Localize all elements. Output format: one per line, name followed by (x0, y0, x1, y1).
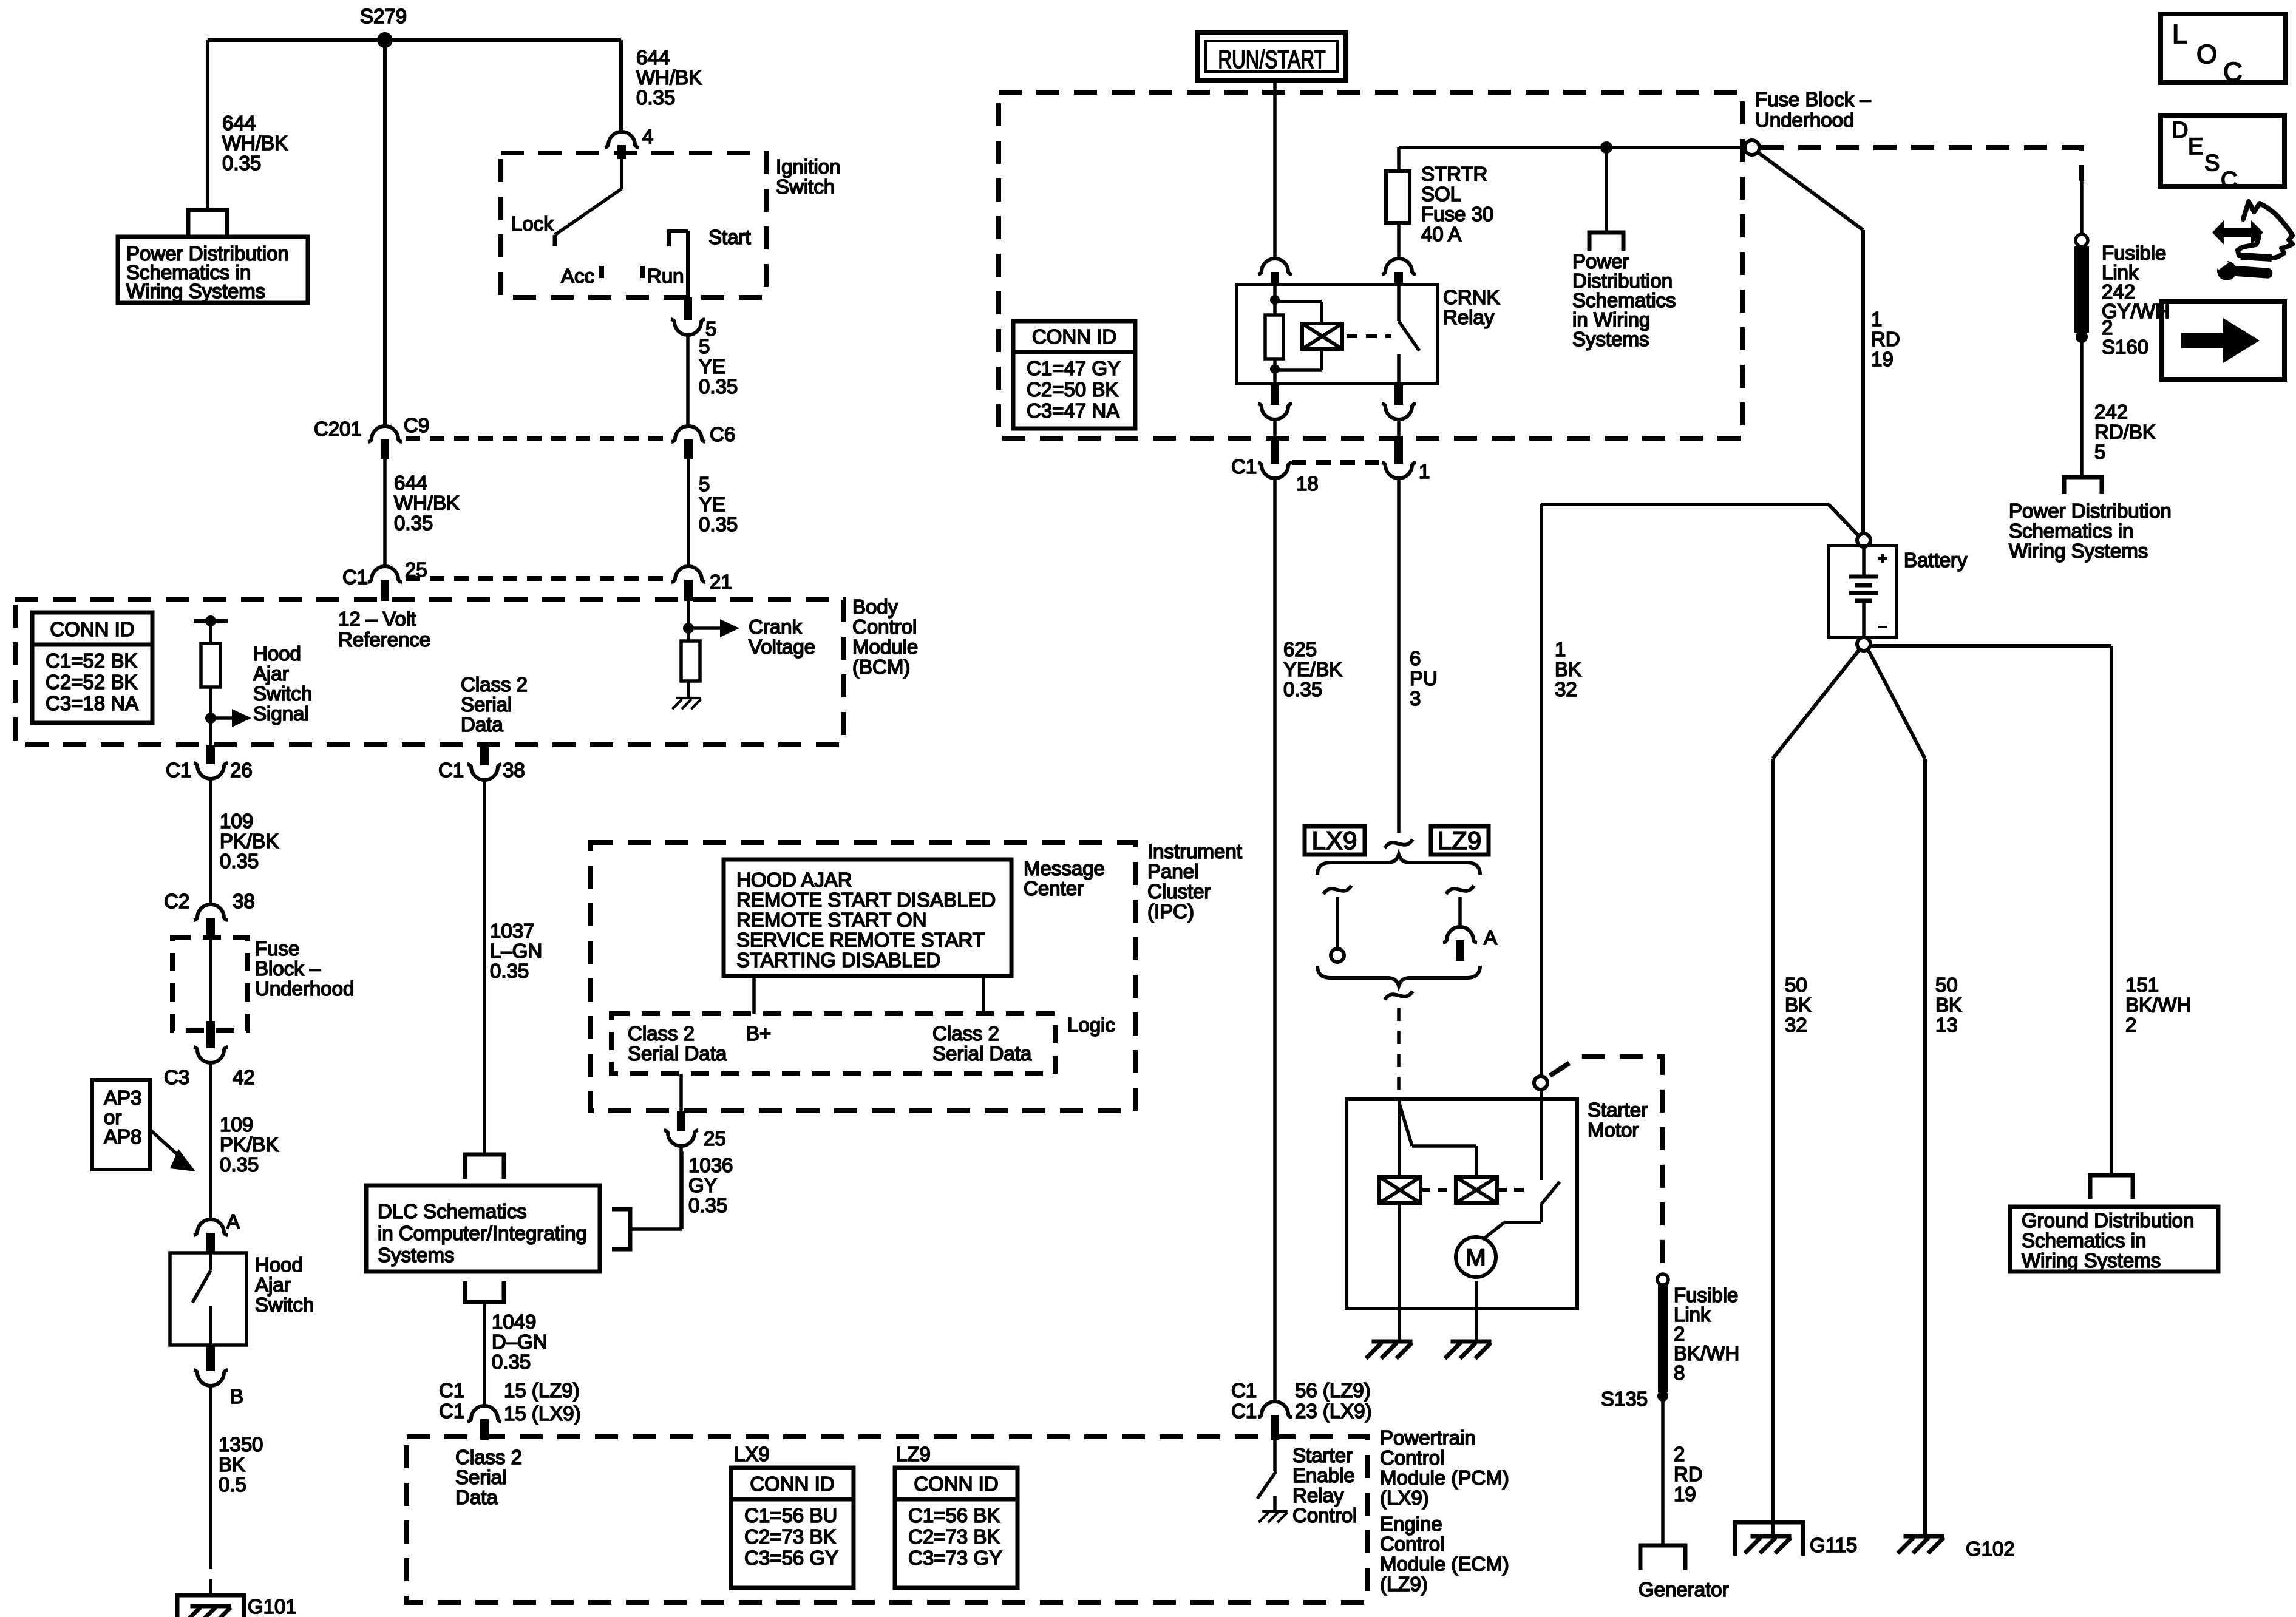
label 1 (relay) (1419, 460, 1430, 483)
contact tick Run (640, 266, 645, 278)
svg-text:C1: C1 (1231, 455, 1257, 478)
icon LOC box (2161, 14, 2286, 87)
split brace bottom (1317, 966, 1480, 986)
svg-text:25: 25 (704, 1127, 726, 1150)
svg-text:WH/BK: WH/BK (394, 492, 460, 514)
icon arrow box (2162, 302, 2284, 379)
svg-text:C: C (2221, 168, 2237, 193)
label Ignition Switch (776, 155, 840, 198)
label 25 (IPC) (704, 1127, 726, 1150)
svg-text:5: 5 (699, 335, 710, 358)
label C3 (164, 1066, 189, 1088)
svg-text:38: 38 (233, 890, 255, 912)
svg-text:Starter: Starter (1588, 1099, 1648, 1121)
svg-text:LX9: LX9 (734, 1443, 770, 1465)
svg-text:Control: Control (852, 615, 917, 638)
DLC top bracket (465, 1154, 504, 1179)
svg-text:Switch: Switch (776, 175, 835, 198)
svg-text:Systems: Systems (378, 1244, 455, 1266)
svg-text:PU: PU (1410, 667, 1438, 690)
wire relay right pin to 1 (1397, 419, 1401, 439)
svg-text:Engine: Engine (1380, 1513, 1442, 1535)
svg-text:LX9: LX9 (1312, 826, 1357, 855)
svg-text:13: 13 (1935, 1014, 1958, 1036)
wire ignition switch pin 4 internal (620, 159, 623, 189)
fusible link S160 body (2074, 246, 2089, 333)
svg-text:(IPC): (IPC) (1147, 900, 1194, 923)
svg-text:C1: C1 (1231, 1379, 1257, 1402)
label LX9 (1312, 826, 1357, 855)
svg-text:0.35: 0.35 (492, 1351, 531, 1373)
label circuit 50 BK 13 (1935, 974, 1962, 1036)
label pin 4 (642, 125, 653, 147)
svg-text:Instrument: Instrument (1147, 840, 1242, 863)
label circuit 1037 L-GN 0.35 (490, 920, 542, 982)
icon adjust double arrow (2212, 220, 2263, 245)
CRNK left top stub (1271, 272, 1279, 286)
connector pin A cap (194, 1219, 228, 1235)
branch LX9 wire (1336, 897, 1339, 949)
svg-text:Battery: Battery (1904, 549, 1968, 571)
starter enable switch wire (1273, 1440, 1277, 1471)
label B+ (746, 1022, 771, 1045)
message center box (724, 859, 1011, 976)
crank voltage arrow (688, 619, 739, 637)
label C1 C1 (PCM) (1231, 1379, 1257, 1422)
svg-text:1049: 1049 (492, 1310, 536, 1333)
svg-text:Serial Data: Serial Data (932, 1042, 1032, 1065)
hood switch contact lower (209, 1306, 212, 1345)
splice S135 (1657, 1391, 1668, 1402)
wire left leg from S279 down (206, 40, 209, 211)
C3-42 stub (206, 1021, 215, 1048)
starter coil1 feed (1398, 1099, 1401, 1177)
svg-text:Power Distribution: Power Distribution (2009, 500, 2172, 522)
svg-text:1: 1 (1555, 638, 1566, 660)
PCM dashed box (407, 1437, 1367, 1602)
wire battery negative to right (1870, 644, 2111, 648)
label C201 (314, 418, 362, 440)
fusible link 2 top circle (1657, 1274, 1668, 1285)
wire RUN/START to CRNK relay (1273, 80, 1277, 260)
svg-text:SOL: SOL (1421, 183, 1461, 205)
svg-text:STARTING DISABLED: STARTING DISABLED (736, 949, 940, 971)
svg-text:D–GN: D–GN (492, 1331, 548, 1353)
label circuit 1049 D-GN 0.35 (492, 1310, 548, 1373)
svg-text:0.35: 0.35 (220, 1153, 259, 1176)
wire coil1 to ground (1398, 1203, 1401, 1340)
CRNK CONN ID table (1013, 321, 1135, 429)
svg-text:Wiring Systems: Wiring Systems (2009, 540, 2148, 562)
svg-text:C2=50 BK: C2=50 BK (1027, 378, 1118, 401)
connector pin 5 cup (671, 319, 705, 335)
connector A cap (LZ9) (1443, 927, 1477, 943)
engine option break tilde (1385, 839, 1413, 848)
svg-text:CRNK: CRNK (1443, 286, 1500, 308)
svg-text:40 A: 40 A (1421, 223, 1461, 245)
label Lock (511, 212, 554, 235)
wire C6 to pin 21 (687, 459, 690, 567)
wire relay left pin to C1-18 (1273, 419, 1277, 439)
CRNK bottom left stub (1271, 384, 1279, 405)
svg-text:Class 2: Class 2 (628, 1022, 695, 1045)
label circuit 50 BK 32 (1785, 974, 1812, 1036)
svg-text:Serial: Serial (461, 693, 512, 716)
ignition switch dashed box (501, 153, 766, 297)
svg-text:AP8: AP8 (104, 1125, 141, 1148)
label 26 (230, 759, 253, 781)
branch LX9 tilde (1323, 886, 1351, 894)
svg-text:1037: 1037 (490, 920, 534, 942)
svg-text:HOOD AJAR: HOOD AJAR (736, 869, 852, 891)
svg-text:3: 3 (1410, 687, 1421, 710)
battery plates (1849, 547, 1878, 637)
svg-text:38: 38 (503, 759, 525, 781)
svg-text:RD: RD (1674, 1463, 1703, 1485)
svg-text:109: 109 (220, 1113, 253, 1136)
relay node bottom (1270, 364, 1280, 374)
label Body Control Module BCM (852, 595, 918, 678)
relay resistor (1265, 315, 1283, 359)
svg-text:RD: RD (1871, 328, 1900, 350)
svg-text:Relay: Relay (1292, 1484, 1344, 1507)
C6 stub (684, 439, 693, 459)
svg-text:Ajar: Ajar (255, 1273, 291, 1296)
wire resistor to signal node (209, 687, 212, 745)
wire 1350 BK (209, 1386, 212, 1569)
connector pin 21 cap (671, 566, 705, 582)
relay link top (1275, 302, 1322, 324)
svg-text:Switch: Switch (255, 1293, 314, 1316)
svg-text:C3=47 NA: C3=47 NA (1027, 399, 1119, 422)
label Fusible Link 242 GY/WH 2 (2102, 242, 2170, 339)
icon DESC box (2161, 115, 2284, 193)
hood switch contact upper (209, 1254, 212, 1270)
generator bracket (1640, 1545, 1685, 1570)
wire logic to pin 25 (679, 1074, 683, 1111)
wire C201 to C1-25 (383, 459, 387, 567)
RUN/START box (1197, 33, 1346, 80)
label Fuse Block - Underhood (top) (1755, 88, 1871, 131)
starter motor dashed outline (1550, 1057, 1662, 1270)
svg-text:32: 32 (1785, 1014, 1807, 1036)
svg-text:Data: Data (461, 713, 503, 736)
battery negative circle (1857, 637, 1870, 651)
ground G101 bracket (177, 1595, 244, 1617)
svg-text:S160: S160 (2102, 336, 2148, 358)
svg-text:YE: YE (699, 355, 725, 378)
svg-text:0.35: 0.35 (394, 512, 433, 534)
svg-text:Class 2: Class 2 (461, 673, 528, 696)
svg-text:C2=73 BK: C2=73 BK (744, 1525, 836, 1548)
label pin 5 (705, 317, 716, 340)
relay coil symbol (1302, 324, 1342, 349)
svg-text:C3=73 GY: C3=73 GY (908, 1547, 1002, 1569)
connector C2 pin 38 cap (194, 904, 228, 920)
relay switch lever (1399, 321, 1419, 351)
solenoid switch lever (1541, 1182, 1560, 1204)
ground distribution bracket (2090, 1175, 2133, 1199)
svg-text:BK: BK (1935, 994, 1962, 1016)
BCM dashed box (15, 600, 844, 745)
svg-text:Module: Module (852, 636, 918, 658)
svg-text:C1: C1 (342, 566, 368, 588)
wire S160 down (2080, 342, 2084, 477)
wire 625 YE/BK long (1273, 478, 1277, 1403)
svg-text:(LZ9): (LZ9) (1380, 1573, 1428, 1595)
relay coil left wire (1273, 286, 1277, 315)
svg-text:Serial: Serial (455, 1466, 506, 1488)
starter solenoid plunger wire (1399, 1103, 1476, 1177)
svg-text:Enable: Enable (1292, 1464, 1355, 1486)
wire motor to ground (1475, 1281, 1478, 1340)
svg-text:C: C (2223, 57, 2243, 87)
pin 5 stub (684, 297, 692, 320)
label 15 (LZ9) (504, 1379, 580, 1402)
label AP3 or AP8 (104, 1086, 141, 1148)
svg-text:C201: C201 (314, 418, 362, 440)
svg-text:Run: Run (647, 265, 684, 287)
svg-text:109: 109 (220, 810, 253, 832)
svg-text:YE/BK: YE/BK (1283, 658, 1342, 680)
label Class 2 Serial Data (BCM) (461, 673, 528, 736)
label Class 2 Serial Data (logic right) (932, 1022, 1032, 1065)
icon adjust wrench (2215, 257, 2273, 280)
label circuit 242 RD/BK 5 (2094, 401, 2156, 463)
svg-text:WH/BK: WH/BK (222, 132, 288, 154)
svg-text:RD/BK: RD/BK (2094, 421, 2156, 443)
svg-text:Wiring Systems: Wiring Systems (126, 280, 265, 302)
svg-text:CONN ID: CONN ID (914, 1473, 998, 1495)
connector C1 pin 38 cup (467, 764, 501, 780)
wire S279 horizontal bus (208, 38, 621, 42)
label circuit 5 YE 0.35 (upper) (699, 335, 738, 398)
label 12 - Volt Reference (338, 608, 430, 651)
svg-text:Acc: Acc (561, 265, 594, 287)
label Ground Distribution Schematics in Wiring Systems (2022, 1209, 2194, 1272)
svg-text:23 (LX9): 23 (LX9) (1295, 1400, 1372, 1422)
svg-text:Panel: Panel (1147, 860, 1198, 883)
svg-text:Fuse: Fuse (255, 937, 299, 960)
svg-text:625: 625 (1283, 638, 1317, 660)
svg-text:Lock: Lock (511, 212, 554, 235)
relay switch wire bottom (1397, 354, 1401, 384)
svg-text:6: 6 (1410, 647, 1421, 670)
coil2 to switch dashes (1497, 1188, 1525, 1192)
label circuit 625 YE/BK 0.35 (1283, 638, 1342, 700)
wire right ground drop (2110, 646, 2113, 1175)
svg-text:L–GN: L–GN (490, 940, 542, 962)
svg-text:8: 8 (1674, 1361, 1685, 1384)
label circuit 1 RD 19 (1871, 308, 1900, 370)
svg-text:CONN ID: CONN ID (750, 1473, 834, 1495)
label Message Center (1024, 857, 1105, 900)
label circuit 109 PK/BK 0.35 (upper) (220, 810, 279, 872)
svg-text:C1: C1 (438, 759, 464, 781)
svg-text:0.35: 0.35 (222, 152, 261, 174)
label Acc (561, 265, 594, 287)
svg-text:C1: C1 (439, 1400, 464, 1422)
dashed wire to starter motor (1397, 1008, 1401, 1099)
wire 1049 D-GN (483, 1302, 486, 1407)
svg-text:C3=18 NA: C3=18 NA (46, 692, 138, 714)
solenoid contact circle (1534, 1076, 1547, 1090)
svg-text:DLC Schematics: DLC Schematics (378, 1200, 527, 1222)
svg-text:242: 242 (2094, 401, 2128, 423)
label LZ9 (conn table) (896, 1443, 931, 1465)
label A (hood switch) (226, 1210, 240, 1233)
svg-text:Switch: Switch (253, 682, 312, 705)
svg-text:S279: S279 (360, 5, 407, 27)
svg-text:50: 50 (1785, 974, 1807, 996)
wire message to logic left (752, 976, 756, 1014)
wire 644 leg down to C201 (383, 40, 387, 427)
svg-text:Fuse Block –: Fuse Block – (1755, 88, 1871, 110)
svg-text:Logic: Logic (1067, 1014, 1115, 1036)
label Class 2 Serial Data (logic left) (628, 1022, 727, 1065)
svg-text:Hood: Hood (255, 1253, 303, 1276)
svg-text:Center: Center (1024, 877, 1084, 900)
svg-text:(LX9): (LX9) (1380, 1486, 1429, 1509)
svg-text:M: M (1466, 1244, 1486, 1271)
fuse block output circle (1745, 140, 1759, 155)
svg-text:Underhood: Underhood (1755, 109, 1854, 131)
svg-text:Systems: Systems (1572, 328, 1649, 350)
svg-text:1: 1 (1419, 460, 1430, 483)
svg-text:G101: G101 (248, 1595, 297, 1617)
C2-38 stub (206, 918, 215, 940)
label B (hood switch) (230, 1385, 243, 1408)
ground G101 rake (185, 1606, 231, 1617)
svg-text:Cluster: Cluster (1147, 880, 1211, 903)
svg-text:151: 151 (2125, 974, 2159, 996)
label circuit 644 WH/BK 0.35 (right leg) (636, 46, 702, 109)
svg-text:BK: BK (1785, 994, 1812, 1016)
resistor hood-ajar pull-up (201, 643, 220, 687)
hood ajar signal arrow (211, 709, 251, 727)
starter coil 1 (1379, 1177, 1421, 1203)
svg-text:Schematics in: Schematics in (2009, 520, 2133, 542)
DLC side bracket (612, 1209, 630, 1249)
svg-text:0.35: 0.35 (688, 1194, 727, 1216)
connector C3 pin 42 cup (194, 1047, 228, 1063)
wire G102 drop (1923, 759, 1927, 1536)
svg-text:in Computer/Integrating: in Computer/Integrating (378, 1222, 587, 1244)
C1 pin 38 stub (480, 745, 489, 765)
pin 1 crossing stub (1394, 436, 1403, 464)
wire solenoid feed vertical (1540, 504, 1543, 1076)
label Power Distribution Schematics in Wiring Systems (fuse block) (1572, 250, 1676, 350)
solenoid switch to motor (1479, 1204, 1541, 1242)
label C1 (pin 25) (342, 566, 368, 588)
svg-text:GY: GY (688, 1174, 718, 1196)
label 38 (fuse block) (233, 890, 255, 912)
AP3 arrow to wire (150, 1130, 195, 1171)
wire battery negative diagonal left (1773, 649, 1860, 759)
LX9 CONN ID table (731, 1468, 854, 1588)
label circuit 5 YE 0.35 (lower) (699, 473, 738, 535)
wire battery negative diagonal right (1868, 649, 1925, 759)
logic dashed box (611, 1014, 1055, 1074)
label G101 (248, 1595, 297, 1617)
connector bracket to Power Distribution box (188, 210, 227, 235)
relay actuator dashed (1347, 334, 1391, 338)
branch LX9 open circle (1331, 949, 1344, 962)
svg-text:0.35: 0.35 (699, 513, 738, 535)
branch LZ9 tilde (1446, 886, 1474, 894)
wire 1036 GY (679, 1146, 683, 1229)
icon adjust hand outline (2238, 202, 2292, 258)
label 56 (LZ9) (1295, 1379, 1371, 1402)
label C6 (710, 423, 735, 446)
svg-text:56 (LZ9): 56 (LZ9) (1295, 1379, 1371, 1402)
svg-text:CONN ID: CONN ID (50, 618, 134, 640)
label RUN/START (1218, 45, 1325, 74)
ground starter motor (1445, 1341, 1492, 1358)
svg-text:0.35: 0.35 (699, 375, 738, 398)
fuse STRTR SOL 30 (1386, 171, 1410, 223)
wire battery positive vertical (1861, 230, 1865, 534)
svg-text:Schematics in: Schematics in (2022, 1229, 2146, 1252)
ground G115 bracket (1735, 1522, 1803, 1556)
coil link dashes (1421, 1188, 1456, 1192)
label C1 (pin 38) (438, 759, 464, 781)
label C1 C1 (DLC-PCM) (439, 1379, 464, 1422)
pin B stub (206, 1345, 215, 1371)
Power Distribution reference box (118, 237, 308, 303)
svg-text:Start: Start (708, 226, 751, 248)
svg-text:LZ9: LZ9 (1438, 826, 1481, 855)
svg-text:REMOTE START ON: REMOTE START ON (736, 909, 927, 931)
fuse block small dashed box (172, 937, 248, 1031)
connector pin 1 cup (1382, 463, 1416, 478)
label C9 (404, 414, 429, 436)
C1-25 stub (381, 580, 389, 601)
connector IPC pin 25 cup (664, 1130, 698, 1146)
svg-text:C1: C1 (439, 1379, 464, 1402)
svg-text:15 (LX9): 15 (LX9) (504, 1402, 581, 1425)
connector CRNK bottom left cup (1258, 404, 1292, 419)
svg-text:WH/BK: WH/BK (636, 66, 702, 89)
battery box (1829, 546, 1897, 637)
svg-text:C6: C6 (710, 423, 735, 446)
svg-text:Control: Control (1380, 1446, 1444, 1469)
split brace top (1317, 855, 1480, 875)
svg-text:Serial Data: Serial Data (628, 1042, 727, 1065)
svg-text:42: 42 (233, 1066, 255, 1088)
C201 C9 stub (381, 439, 389, 459)
label A (LZ9 branch) (1484, 926, 1497, 949)
svg-text:C3=56 GY: C3=56 GY (744, 1547, 838, 1569)
label circuit 109 PK/BK 0.35 (lower) (220, 1113, 279, 1176)
branch LZ9 wire (1458, 897, 1462, 928)
fusible link 2 body (1658, 1285, 1668, 1392)
svg-text:C1: C1 (166, 759, 191, 781)
connector C6 cap (671, 426, 705, 442)
solenoid switch feed (1540, 1090, 1543, 1180)
svg-text:0.35: 0.35 (1283, 678, 1322, 700)
svg-text:Block –: Block – (255, 957, 321, 980)
contact tick Acc (599, 266, 604, 278)
svg-text:Fuse 30: Fuse 30 (1421, 203, 1493, 225)
svg-text:C1=56 BU: C1=56 BU (744, 1504, 837, 1527)
svg-text:REMOTE START DISABLED: REMOTE START DISABLED (736, 889, 996, 911)
battery positive circle (1857, 534, 1870, 547)
svg-text:O: O (2196, 39, 2217, 69)
svg-text:D: D (2172, 118, 2188, 143)
svg-text:PK/BK: PK/BK (220, 1133, 279, 1156)
relay node top (1270, 295, 1280, 305)
